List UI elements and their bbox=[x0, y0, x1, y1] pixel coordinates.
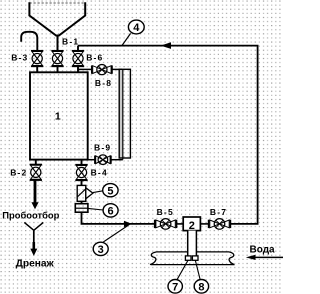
valve B-9 bbox=[95, 155, 111, 165]
node 8 leader bbox=[195, 260, 200, 279]
svg-text:5: 5 bbox=[107, 185, 113, 197]
wire heat exchanger to B-9 bbox=[111, 159, 123, 161]
ejector neck bbox=[188, 231, 197, 257]
svg-text:В-3: В-3 bbox=[11, 52, 28, 62]
drain funnel bbox=[24, 222, 43, 230]
wire tank to B-9 bbox=[88, 159, 95, 161]
node 6 bbox=[103, 204, 118, 218]
node 3 leader bbox=[103, 225, 129, 242]
channel break left bbox=[150, 252, 157, 265]
channel break right bbox=[229, 252, 235, 265]
sampling arrow bbox=[34, 181, 37, 203]
valve B-7 bbox=[209, 219, 231, 230]
wire B-4 to sampler bbox=[81, 180, 83, 185]
wire sampler to sight glass bbox=[81, 201, 83, 203]
node 3 bbox=[93, 242, 108, 256]
tank 1 bbox=[30, 72, 88, 159]
wire B-6 bottom bbox=[77, 66, 79, 71]
valve B-3 bbox=[31, 51, 43, 67]
flow arrow to ejector bbox=[124, 221, 132, 227]
wire hopper to B-1 bbox=[57, 35, 59, 51]
heat exchanger jacket bbox=[119, 69, 130, 159]
sensor 7 bbox=[185, 256, 191, 260]
svg-text:4: 4 bbox=[133, 22, 140, 34]
svg-text:Пробоотбор: Пробоотбор bbox=[2, 210, 59, 221]
wire B-1 bottom bbox=[57, 66, 59, 71]
wire ejector to B-7 bbox=[200, 223, 208, 225]
node 7 bbox=[168, 280, 182, 294]
node 4 bbox=[128, 20, 144, 34]
vent hook pipe bbox=[21, 32, 37, 51]
hopper bbox=[29, 2, 85, 36]
node 5 leader bbox=[93, 191, 103, 193]
valve B-6 bbox=[72, 51, 84, 67]
wire B-6 to B-8 bbox=[78, 68, 92, 70]
svg-text:В-6: В-6 bbox=[86, 53, 103, 63]
svg-text:В-2: В-2 bbox=[10, 167, 27, 177]
svg-text:6: 6 bbox=[108, 206, 114, 218]
valve B-1 bbox=[51, 51, 63, 67]
svg-text:Вода: Вода bbox=[250, 244, 276, 255]
svg-text:Дренаж: Дренаж bbox=[16, 259, 55, 270]
sensor 8 bbox=[192, 256, 198, 260]
arrow on recycle pipe bbox=[161, 42, 172, 49]
wire B-3 bottom bbox=[36, 66, 38, 71]
valve B-2 bbox=[30, 164, 42, 180]
svg-text:В-1: В-1 bbox=[62, 36, 79, 46]
valve B-4 bbox=[75, 165, 87, 181]
wire sight glass to bottom pipe bbox=[82, 212, 155, 224]
water channel bottom line bbox=[151, 264, 235, 266]
sampler device 5 bbox=[77, 185, 93, 201]
ejector 2 bbox=[183, 217, 200, 232]
valve B-5 bbox=[155, 219, 177, 230]
node 7 leader bbox=[177, 260, 188, 279]
wire tank to B-2 bbox=[35, 160, 37, 165]
svg-text:2: 2 bbox=[189, 220, 195, 232]
wire B-5 to ejector bbox=[177, 223, 184, 225]
wire B-8 to heat exchanger bbox=[112, 68, 122, 70]
svg-text:В-7: В-7 bbox=[210, 207, 227, 217]
node 5 bbox=[103, 184, 118, 198]
svg-text:В-4: В-4 bbox=[91, 167, 108, 177]
recycle pipe bbox=[78, 46, 258, 224]
svg-text:1: 1 bbox=[55, 110, 61, 122]
svg-text:7: 7 bbox=[172, 281, 178, 293]
wire tank to B-4 bbox=[81, 160, 83, 165]
svg-text:В-5: В-5 bbox=[157, 207, 174, 217]
valve B-8 bbox=[92, 65, 112, 75]
wire funnel to drain bbox=[33, 230, 35, 242]
sight glass device 6 bbox=[75, 204, 88, 213]
svg-text:8: 8 bbox=[198, 281, 204, 293]
node 6 leader bbox=[88, 208, 103, 210]
wire B-6 top to recycle pipe bbox=[77, 46, 79, 51]
water channel top line bbox=[157, 251, 230, 253]
node 8 bbox=[194, 280, 208, 294]
svg-text:В-8: В-8 bbox=[95, 78, 112, 88]
svg-text:3: 3 bbox=[98, 244, 104, 256]
water inlet arrow bbox=[255, 256, 284, 258]
node 4 leader bbox=[122, 33, 131, 45]
drain arrow bbox=[32, 242, 35, 249]
svg-text:В-9: В-9 bbox=[94, 142, 111, 152]
